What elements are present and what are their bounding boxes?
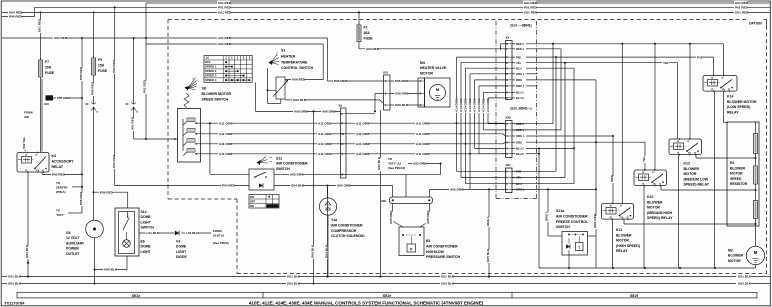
svg-text:30: 30 (35, 155, 37, 157)
svg-text:A11 ORG: A11 ORG (219, 132, 233, 136)
svg-text:YEL: YEL (663, 61, 669, 65)
svg-text:P05 RED: P05 RED (79, 66, 83, 80)
svg-text:A11 ORG: A11 ORG (356, 121, 370, 125)
svg-text:G02 BLK: G02 BLK (738, 282, 752, 286)
svg-text:L02 BLK: L02 BLK (186, 231, 199, 235)
svg-text:30: 30 (687, 141, 689, 143)
svg-text:ORG 1: ORG 1 (516, 134, 525, 138)
svg-text:X3c: X3c (506, 163, 512, 167)
svg-text:A11 ORG: A11 ORG (356, 132, 370, 136)
svg-text:A11 ORG: A11 ORG (219, 121, 233, 125)
svg-text:A14 ORG: A14 ORG (473, 98, 477, 112)
svg-text:B1: B1 (426, 239, 431, 243)
svg-text:12 VOLT: 12 VOLT (66, 236, 80, 240)
svg-text:G01 RED: G01 RED (38, 18, 42, 32)
svg-text:X1: X1 (125, 102, 129, 106)
svg-text:HEATER: HEATER (281, 54, 296, 58)
svg-text:SPEED 4: SPEED 4 (205, 78, 217, 82)
svg-text:M3: M3 (728, 249, 733, 253)
svg-text:FREEZE CONTROL: FREEZE CONTROL (556, 220, 589, 224)
svg-text:MOTOR: MOTOR (728, 259, 741, 263)
svg-text:DOME: DOME (141, 215, 152, 219)
svg-text:A11 ORG: A11 ORG (318, 152, 332, 156)
svg-text:POWER: POWER (66, 247, 79, 251)
svg-text:RED 1: RED 1 (516, 47, 524, 51)
svg-text:X3: X3 (506, 36, 510, 40)
svg-text:FROM: FROM (213, 229, 222, 233)
svg-text:E6: E6 (141, 240, 145, 244)
svg-text:SWITCH: SWITCH (141, 226, 155, 230)
svg-text:COMPRESSOR: COMPRESSOR (331, 229, 357, 233)
svg-text:BLOWER: BLOWER (647, 200, 663, 204)
svg-text:A11 ORG: A11 ORG (416, 152, 430, 156)
svg-text:A05 ORG: A05 ORG (337, 184, 351, 188)
svg-text:85: 85 (25, 170, 27, 172)
svg-text:85: 85 (677, 152, 679, 154)
svg-text:SE2e: SE2e (383, 294, 392, 298)
svg-text:MOTOR: MOTOR (616, 239, 629, 243)
svg-text:BLU: BLU (516, 66, 522, 70)
svg-text:A: A (420, 80, 422, 83)
svg-text:A14 ORG: A14 ORG (464, 98, 468, 112)
svg-text:CONTROL SWITCH: CONTROL SWITCH (281, 66, 313, 70)
svg-text:A11 ORG: A11 ORG (416, 121, 430, 125)
svg-text:P01 RED: P01 RED (218, 6, 232, 10)
svg-text:ORG: ORG (610, 174, 614, 182)
svg-text:S14: S14 (141, 210, 147, 214)
svg-text:SPEED) RELAY: SPEED) RELAY (684, 183, 710, 187)
svg-text:G02 BLK: G02 BLK (441, 282, 455, 286)
svg-text:BLOWER: BLOWER (730, 166, 746, 170)
svg-text:BLU 2: BLU 2 (516, 152, 524, 156)
svg-text:P06 RED: P06 RED (334, 79, 348, 83)
svg-text:G06 BLK: G06 BLK (395, 103, 409, 107)
svg-text:G01 RED: G01 RED (735, 11, 749, 15)
svg-text:OPTION: OPTION (749, 22, 762, 26)
svg-text:BLOWER: BLOWER (728, 254, 744, 258)
svg-text:X3b: X3b (506, 116, 512, 120)
svg-text:A06 ORG: A06 ORG (395, 92, 409, 96)
svg-text:G01 BLK: G01 BLK (738, 275, 752, 279)
svg-text:SE1e: SE1e (132, 294, 141, 298)
svg-text:C: C (506, 67, 508, 70)
svg-text:P06 RED: P06 RED (100, 190, 114, 194)
svg-text:A14 ORG: A14 ORG (455, 98, 459, 112)
svg-text:RELAY: RELAY (616, 249, 628, 253)
svg-text:(HIGH SPEED): (HIGH SPEED) (616, 244, 640, 248)
svg-text:ACCESSORY: ACCESSORY (52, 160, 75, 164)
svg-text:T: T (578, 246, 580, 250)
svg-text:A05 ORG: A05 ORG (413, 162, 427, 166)
svg-text:ORG 1: ORG 1 (544, 211, 548, 221)
svg-text:410E, 412E, 424E, 430E, 434E M: 410E, 412E, 424E, 430E, 434E MANUAL CONT… (249, 300, 484, 305)
svg-text:YEL: YEL (516, 61, 522, 65)
svg-text:K14: K14 (727, 95, 733, 99)
svg-text:AUXILIARY: AUXILIARY (66, 241, 85, 245)
svg-text:G: G (506, 79, 508, 82)
svg-text:P05 RED: P05 RED (79, 191, 83, 205)
svg-text:30: 30 (652, 172, 654, 174)
svg-text:P06 RED: P06 RED (395, 79, 409, 83)
svg-text:H: H (506, 85, 508, 88)
svg-text:(See PIN E3): (See PIN E3) (388, 166, 405, 170)
svg-text:(LOW SPEED): (LOW SPEED) (727, 105, 750, 109)
svg-text:A01 RED: A01 RED (131, 116, 135, 130)
svg-text:BLOWER: BLOWER (684, 167, 700, 171)
svg-text:FUSE: FUSE (98, 69, 108, 73)
svg-text:SENTRY: SENTRY (56, 186, 68, 190)
svg-text:MOTOR: MOTOR (420, 71, 433, 75)
svg-text:MOTOR: MOTOR (647, 206, 660, 210)
svg-text:TX1170784: TX1170784 (4, 300, 25, 305)
svg-text:YEL: YEL (642, 156, 646, 162)
svg-text:A01 RED: A01 RED (218, 36, 232, 40)
svg-text:A11 ORG: A11 ORG (219, 152, 233, 156)
svg-text:(PIN A): (PIN A) (56, 190, 66, 194)
svg-text:K: K (506, 43, 508, 46)
svg-text:K11: K11 (616, 228, 622, 232)
svg-text:AIR CONDITIONER: AIR CONDITIONER (276, 162, 308, 166)
svg-text:FUSE: FUSE (45, 71, 55, 75)
svg-text:TEMPERATURE: TEMPERATURE (281, 60, 308, 64)
svg-text:P05 RED: P05 RED (52, 173, 66, 177)
svg-text:DOME: DOME (141, 245, 152, 249)
svg-text:"KEY" A2: "KEY" A2 (388, 162, 401, 166)
svg-text:A11 ORG: A11 ORG (318, 132, 332, 136)
svg-text:C: C (420, 104, 422, 107)
svg-text:OUTLET: OUTLET (66, 252, 80, 256)
svg-text:(See PIN B): (See PIN B) (213, 241, 229, 245)
svg-text:(MEDIUM LOW: (MEDIUM LOW (684, 177, 709, 181)
svg-text:BLU 1: BLU 1 (516, 91, 524, 95)
svg-text:P04 RED: P04 RED (9, 15, 23, 19)
svg-text:HEATER VALVE: HEATER VALVE (420, 66, 447, 70)
svg-text:BLU 2: BLU 2 (516, 96, 524, 100)
svg-text:(S.N. 36842—): (S.N. 36842—) (510, 107, 531, 111)
svg-text:SPEED) RELAY: SPEED) RELAY (647, 216, 673, 220)
svg-text:D: D (420, 93, 422, 96)
svg-text:N: N (342, 143, 344, 146)
svg-text:A11 ORG: A11 ORG (356, 142, 370, 146)
svg-text:A01 RED: A01 RED (54, 36, 68, 40)
svg-text:OFF: OFF (205, 60, 211, 64)
svg-text:A05 ORG: A05 ORG (389, 210, 393, 224)
svg-text:X02 YEL: X02 YEL (22, 137, 26, 149)
svg-text:A05 ORG: A05 ORG (426, 210, 430, 224)
svg-text:DIODE: DIODE (176, 255, 187, 259)
svg-text:RELAY: RELAY (727, 110, 739, 114)
svg-text:S2: S2 (281, 49, 285, 53)
svg-text:SPEED 1: SPEED 1 (205, 65, 217, 69)
svg-text:BLOWER: BLOWER (616, 233, 632, 237)
svg-text:A11 ORG: A11 ORG (219, 142, 233, 146)
svg-text:K12: K12 (684, 162, 690, 166)
svg-text:AIR CONDITIONER: AIR CONDITIONER (331, 223, 363, 227)
svg-text:PRESSURE SWITCH: PRESSURE SWITCH (426, 255, 461, 259)
svg-text:SPEED 2: SPEED 2 (205, 69, 217, 73)
svg-text:A14 ORG: A14 ORG (477, 98, 481, 112)
svg-text:85: 85 (642, 183, 644, 185)
svg-text:AIR CONDITIONER: AIR CONDITIONER (426, 244, 458, 248)
svg-text:SPEED 3: SPEED 3 (205, 74, 217, 78)
svg-text:BLOWER MOTOR: BLOWER MOTOR (202, 92, 232, 96)
svg-text:X40: X40 (24, 115, 30, 119)
svg-text:G06 BLK: G06 BLK (104, 268, 118, 272)
svg-text:A01 RED: A01 RED (218, 42, 232, 46)
svg-text:OR6 ORG: OR6 ORG (593, 213, 597, 228)
svg-text:L01 BLK: L01 BLK (147, 231, 160, 235)
svg-text:A06 ORG: A06 ORG (294, 110, 308, 114)
svg-text:P0E: P0E (516, 55, 521, 59)
svg-text:LIGHT: LIGHT (176, 250, 187, 254)
svg-text:D: D (506, 73, 508, 76)
svg-text:RELAY: RELAY (52, 165, 64, 169)
svg-text:F2: F2 (364, 26, 368, 30)
svg-text:BLOWER MOTOR: BLOWER MOTOR (727, 100, 757, 104)
svg-text:A14 ORG: A14 ORG (468, 98, 472, 112)
svg-text:85: 85 (711, 89, 713, 91)
svg-text:A11 ORG: A11 ORG (356, 152, 370, 156)
svg-text:SPEED: SPEED (730, 177, 742, 181)
svg-text:DOME: DOME (176, 245, 187, 249)
svg-text:ORG: ORG (516, 140, 522, 144)
svg-text:P01 RED: P01 RED (143, 79, 147, 93)
svg-text:ORG 1: ORG 1 (516, 84, 525, 88)
svg-text:85: 85 (610, 217, 612, 219)
svg-text:A: A (506, 56, 508, 59)
svg-text:K10: K10 (647, 195, 653, 199)
svg-text:Y1a: Y1a (331, 218, 337, 222)
svg-text:30: 30 (721, 78, 723, 80)
svg-text:M4: M4 (420, 61, 425, 65)
svg-text:A05 ORG: A05 ORG (290, 173, 304, 177)
svg-text:X9: X9 (339, 104, 343, 108)
svg-text:30: 30 (620, 206, 622, 208)
svg-text:A06 RED: A06 RED (292, 78, 306, 82)
svg-text:F5: F5 (98, 58, 102, 62)
svg-text:LIGHT: LIGHT (141, 250, 152, 254)
svg-text:P01 RED: P01 RED (735, 6, 749, 10)
svg-text:RED 2: RED 2 (516, 42, 524, 46)
svg-text:A14 ORG: A14 ORG (482, 98, 486, 112)
svg-text:P1E: P1E (697, 55, 703, 59)
svg-text:ORG: ORG (516, 78, 522, 82)
svg-text:P01 RED: P01 RED (524, 6, 538, 10)
svg-text:A11 ORG: A11 ORG (416, 132, 430, 136)
svg-text:A11 ORG: A11 ORG (416, 142, 430, 146)
svg-text:G06 BLK: G06 BLK (377, 156, 381, 170)
svg-text:CLUTCH SOLENOID: CLUTCH SOLENOID (331, 234, 365, 238)
svg-text:P04 RED: P04 RED (222, 184, 236, 188)
svg-text:SWITCH: SWITCH (556, 225, 570, 229)
svg-text:P04 RED: P04 RED (112, 154, 116, 168)
svg-text:MOTOR: MOTOR (730, 172, 743, 176)
svg-text:HIGH/LOW: HIGH/LOW (426, 250, 445, 254)
svg-text:F7: F7 (45, 60, 49, 64)
svg-text:M: M (754, 250, 758, 255)
svg-text:BLU 1: BLU 1 (516, 147, 524, 151)
svg-text:MOTOR: MOTOR (684, 172, 697, 176)
svg-text:G03 BLK: G03 BLK (25, 244, 29, 258)
svg-text:A14 ORG: A14 ORG (486, 98, 490, 112)
svg-text:A11 ORG: A11 ORG (318, 142, 332, 146)
svg-text:FUSE: FUSE (364, 37, 374, 41)
svg-text:20A: 20A (45, 66, 52, 70)
svg-text:(S.N. —36841): (S.N. —36841) (510, 24, 531, 28)
svg-text:P06 RED: P06 RED (91, 81, 95, 95)
svg-text:S21a: S21a (556, 209, 564, 213)
svg-text:ORG 1: ORG 1 (516, 72, 525, 76)
svg-text:X2 (P A): X2 (P A) (213, 234, 224, 238)
svg-text:S11: S11 (276, 157, 282, 161)
svg-text:OFF: OFF (250, 200, 256, 204)
svg-text:P05 RED: P05 RED (57, 96, 71, 100)
svg-text:SWITCH: SWITCH (276, 167, 290, 171)
svg-text:ORG 1: ORG 1 (486, 216, 490, 226)
svg-text:G05 BLK: G05 BLK (486, 248, 490, 262)
svg-text:A14 ORG: A14 ORG (459, 98, 463, 112)
svg-text:R4: R4 (730, 161, 734, 165)
svg-text:"KEY": "KEY" (56, 213, 65, 217)
svg-text:V4: V4 (176, 240, 180, 244)
svg-text:S8: S8 (202, 87, 206, 91)
svg-text:G01 BLK: G01 BLK (287, 275, 301, 279)
svg-text:G01 BLK: G01 BLK (8, 275, 22, 279)
svg-text:X2b: X2b (381, 199, 387, 203)
svg-text:G06 BLK: G06 BLK (293, 98, 307, 102)
svg-text:K4: K4 (52, 154, 57, 158)
svg-text:G04 BLK: G04 BLK (310, 244, 314, 258)
svg-text:LIGHT: LIGHT (141, 220, 152, 224)
svg-text:G04 BLK: G04 BLK (291, 184, 305, 188)
svg-text:X1: X1 (85, 102, 89, 106)
svg-text:X16: X16 (44, 102, 49, 106)
svg-text:SPEED SWITCH: SPEED SWITCH (202, 97, 229, 101)
svg-text:ON: ON (250, 204, 254, 208)
svg-text:A05 ORG: A05 ORG (450, 188, 464, 192)
svg-text:G02 BLK: G02 BLK (287, 282, 301, 286)
svg-text:A06 ORG: A06 ORG (322, 110, 336, 114)
svg-text:G01 BLK: G01 BLK (441, 275, 455, 279)
svg-text:RESISTOR: RESISTOR (730, 182, 748, 186)
svg-text:A03 RED: A03 RED (366, 47, 380, 51)
svg-text:(MEDIUM HIGH: (MEDIUM HIGH (647, 211, 673, 215)
svg-text:G02 BLK: G02 BLK (8, 282, 22, 286)
svg-text:AIR CONDITIONER: AIR CONDITIONER (556, 214, 588, 218)
svg-text:FROM: FROM (24, 111, 33, 115)
svg-text:SE2f: SE2f (630, 294, 639, 298)
svg-text:30A: 30A (364, 31, 371, 35)
svg-text:ON: ON (250, 195, 254, 199)
svg-text:G6: G6 (66, 231, 71, 235)
svg-text:P04 RED: P04 RED (112, 59, 116, 73)
svg-text:X15: X15 (383, 71, 389, 75)
svg-text:G01 RED: G01 RED (218, 11, 232, 15)
svg-text:A11 ORG: A11 ORG (318, 121, 332, 125)
svg-text:G01 RED: G01 RED (524, 11, 538, 15)
svg-text:15A: 15A (98, 64, 105, 68)
